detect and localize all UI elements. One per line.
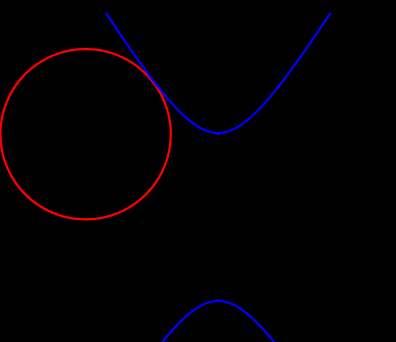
hyperbola top vertex notch ticks bbox=[217, 133, 219, 135]
circle (red, tangent to hyperbola) bbox=[0, 49, 170, 219]
hyperbola bottom branch (blue) bbox=[161, 301, 276, 342]
hyperbola top branch (blue) bbox=[106, 13, 331, 133]
hyperbola bottom vertex notch ticks bbox=[217, 299, 219, 301]
